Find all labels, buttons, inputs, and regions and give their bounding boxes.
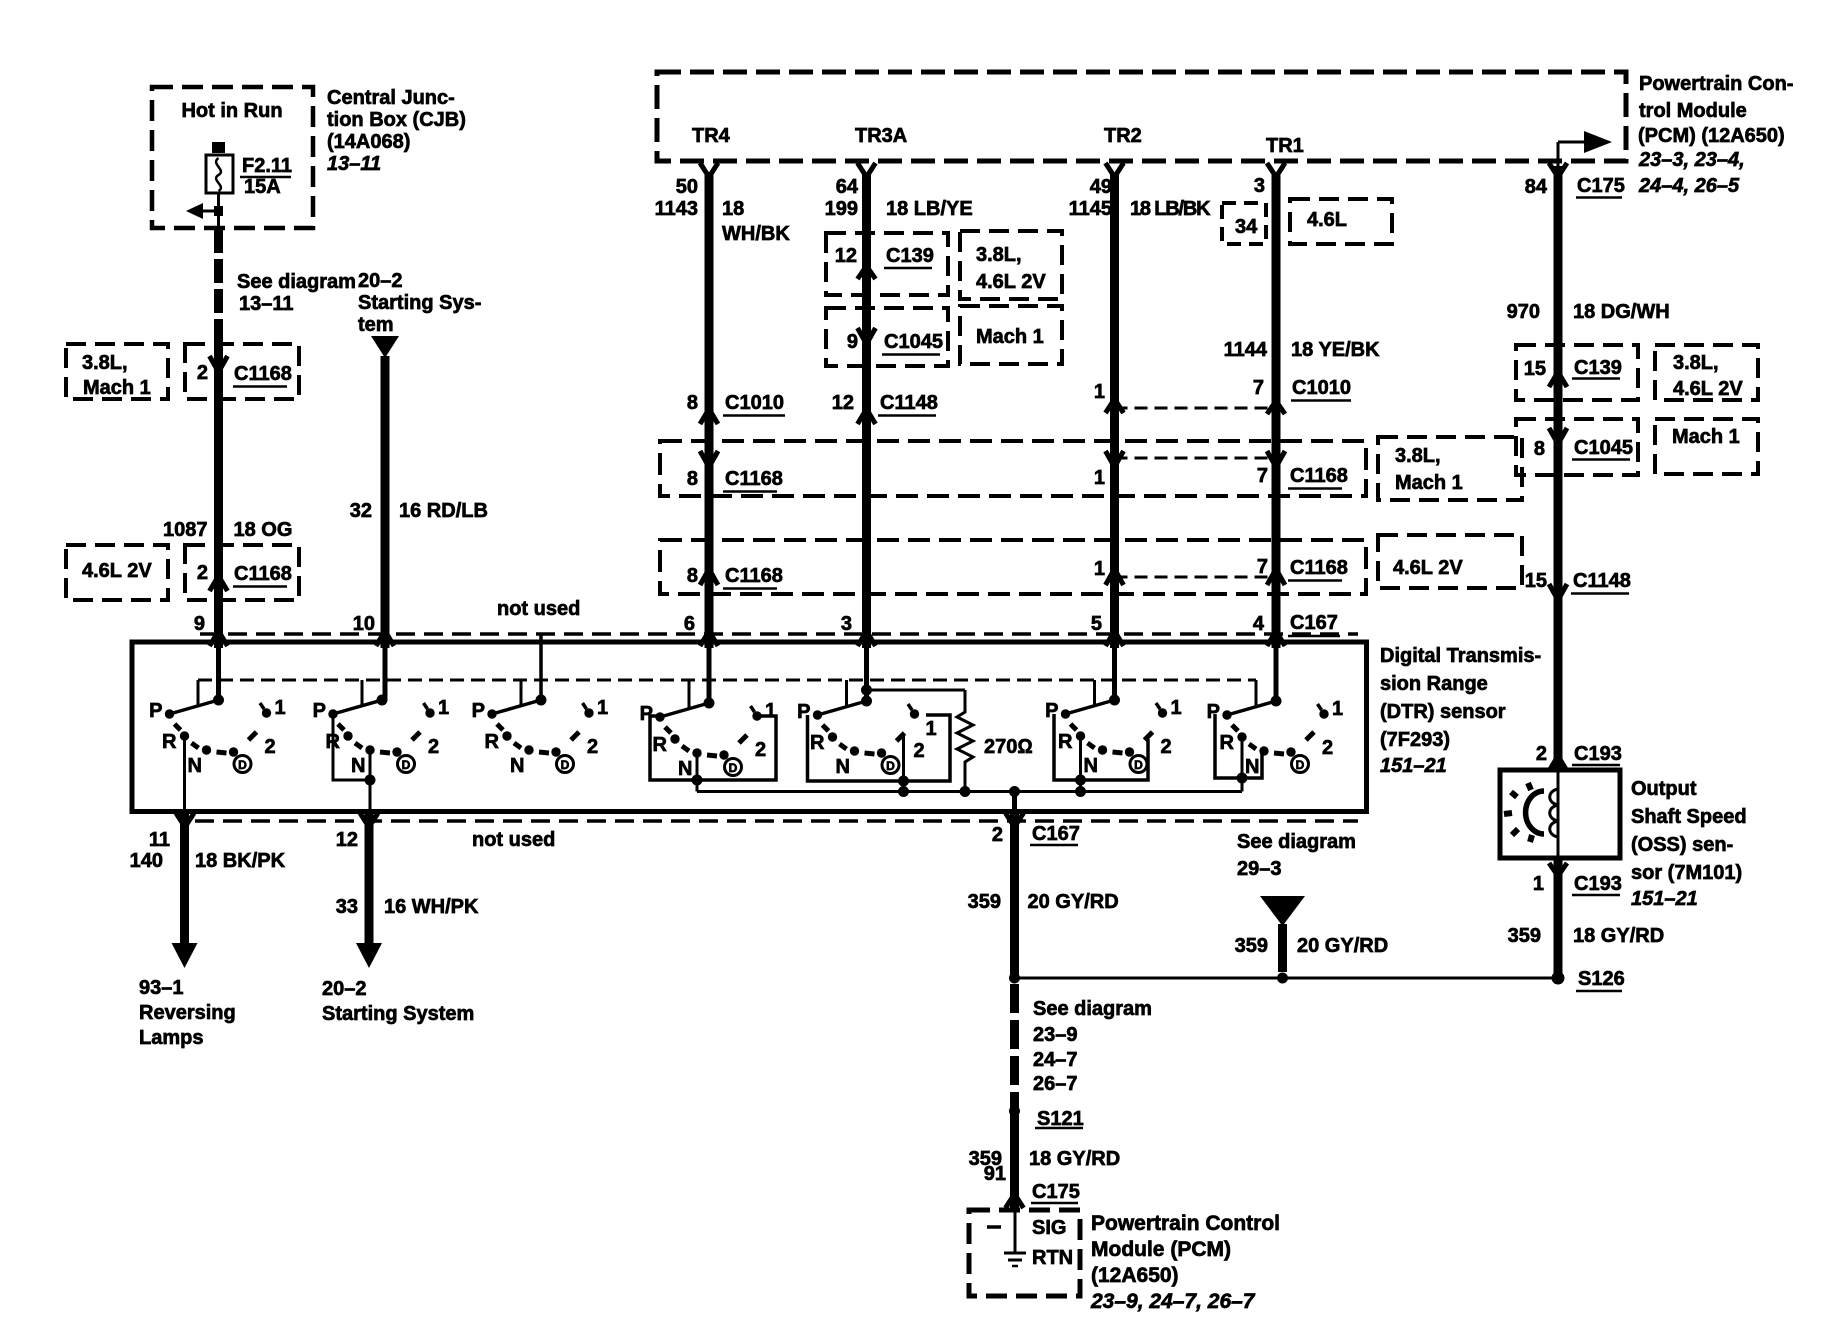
- wire: pin 12 to starting system: [356, 812, 382, 969]
- switch 3 (not used): [472, 680, 608, 777]
- svg-text:Mach 1: Mach 1: [1672, 426, 1740, 448]
- svg-text:(PCM) (12A650): (PCM) (12A650): [1638, 125, 1785, 147]
- wire label 33 16 WH/PK: [336, 896, 479, 918]
- connector C1168 pin 2 (upper): [185, 344, 299, 399]
- svg-text:D: D: [1277, 904, 1289, 921]
- wire labels TR2: [1069, 176, 1211, 220]
- not used (top): [497, 598, 580, 700]
- svg-text:C1010: C1010: [1292, 377, 1351, 399]
- variant tag 3.8L Mach 1 (row upper): [1378, 437, 1522, 500]
- svg-text:Powertrain Control: Powertrain Control: [1091, 1212, 1280, 1235]
- svg-text:2: 2: [197, 362, 208, 384]
- svg-text:D: D: [1134, 758, 1143, 772]
- svg-text:4: 4: [1253, 613, 1265, 635]
- svg-text:3: 3: [841, 613, 852, 635]
- svg-text:P: P: [149, 700, 162, 722]
- destination 20-2 Starting System: [322, 978, 474, 1025]
- starting system triangle input: [371, 336, 399, 358]
- svg-text:tion Box (CJB): tion Box (CJB): [327, 109, 466, 131]
- connector C175 pin 84: [1525, 175, 1625, 198]
- pin TR1: [1266, 135, 1304, 177]
- svg-text:N: N: [1245, 756, 1259, 778]
- svg-text:D: D: [402, 758, 411, 772]
- svg-text:18 YE/BK: 18 YE/BK: [1291, 339, 1380, 361]
- svg-text:N: N: [836, 756, 850, 778]
- svg-text:C193: C193: [1574, 743, 1622, 765]
- svg-text:1: 1: [1533, 873, 1544, 895]
- svg-text:See diagram: See diagram: [237, 271, 356, 293]
- DTR connector dashed line (bottom): [195, 819, 1358, 823]
- svg-text:1143: 1143: [655, 198, 698, 220]
- variant tag 4.6L 2V (row lower): [1378, 535, 1522, 588]
- svg-text:1: 1: [275, 697, 286, 719]
- svg-text:23–9, 24–7, 26–7: 23–9, 24–7, 26–7: [1090, 1290, 1256, 1313]
- svg-text:See diagram: See diagram: [1033, 998, 1152, 1020]
- svg-text:23–9: 23–9: [1033, 1024, 1078, 1046]
- DTR internal dashed bus: [198, 679, 1256, 682]
- variant tag 3.8L 4.6L 2V (TR3A): [960, 231, 1062, 299]
- svg-text:S121: S121: [1037, 1108, 1084, 1130]
- svg-text:7: 7: [1257, 465, 1268, 487]
- svg-text:D: D: [561, 758, 570, 772]
- svg-text:16 RD/LB: 16 RD/LB: [399, 500, 488, 522]
- svg-text:C193: C193: [1574, 873, 1622, 895]
- connector C1010 pin 1 (TR2): [1094, 381, 1124, 413]
- svg-text:C1168: C1168: [234, 363, 292, 385]
- svg-text:(14A068): (14A068): [327, 131, 410, 153]
- svg-text:1: 1: [1332, 698, 1343, 720]
- wire: S126 to S121 (dashed): [1010, 984, 1019, 1112]
- wire: TR2 to DTR pin 5: [1110, 175, 1119, 648]
- svg-text:F2.11: F2.11: [242, 155, 292, 177]
- svg-text:3: 3: [1254, 175, 1265, 197]
- svg-text:270Ω: 270Ω: [984, 736, 1033, 758]
- variant tag 4.6L 2V (left): [66, 545, 168, 600]
- connector C1010 pin 7 (TR1): [1253, 377, 1351, 414]
- connector C1168 pin 2 (lower): [185, 545, 299, 600]
- splice bus S126: [1009, 968, 1625, 991]
- svg-text:(12A650): (12A650): [1091, 1264, 1179, 1287]
- svg-text:1: 1: [1094, 558, 1105, 580]
- svg-text:8: 8: [687, 468, 698, 490]
- svg-text:20–2: 20–2: [322, 978, 367, 1000]
- svg-text:20–2: 20–2: [358, 270, 403, 292]
- wire: bus to DTR pin 2: [1012, 792, 1017, 812]
- svg-text:1: 1: [1171, 697, 1182, 719]
- svg-text:D: D: [729, 761, 738, 775]
- svg-text:SIG: SIG: [1032, 1217, 1066, 1239]
- svg-text:P: P: [1045, 700, 1058, 722]
- svg-text:C1010: C1010: [725, 392, 784, 414]
- svg-text:2: 2: [914, 740, 925, 762]
- svg-text:(7F293): (7F293): [1380, 729, 1450, 751]
- switch 2 (pin 10): [313, 648, 449, 812]
- switch 1 (pin 9): [149, 648, 285, 812]
- wire label 970 18 DG/WH: [1507, 301, 1670, 323]
- svg-text:2: 2: [1322, 737, 1333, 759]
- resistor 270 ohm: [867, 690, 1033, 792]
- svg-text:(OSS) sen-: (OSS) sen-: [1631, 834, 1733, 856]
- svg-text:1087: 1087: [163, 519, 208, 541]
- svg-text:359: 359: [1235, 935, 1268, 957]
- svg-text:20 GY/RD: 20 GY/RD: [1297, 935, 1388, 957]
- svg-text:2: 2: [428, 736, 439, 758]
- PCM SIG RTN pins: [987, 1210, 1073, 1269]
- svg-text:1: 1: [1094, 467, 1105, 489]
- svg-text:4.6L 2V: 4.6L 2V: [82, 560, 152, 582]
- svg-text:D: D: [238, 758, 247, 772]
- svg-text:24–7: 24–7: [1033, 1049, 1078, 1071]
- DTR pin 2 C167: [992, 813, 1080, 846]
- wire: CJB fuse to DTR pin 9: [214, 228, 223, 648]
- svg-text:Hot in Run: Hot in Run: [181, 100, 282, 122]
- svg-text:N: N: [188, 755, 202, 777]
- svg-text:5: 5: [1091, 613, 1102, 635]
- svg-text:64: 64: [836, 176, 859, 198]
- svg-text:1: 1: [926, 718, 937, 740]
- svg-text:C1168: C1168: [1290, 557, 1348, 579]
- PCM internal arrow: [1558, 131, 1612, 166]
- fuse F2.11 15A: [206, 142, 292, 228]
- svg-text:RTN: RTN: [1032, 1247, 1073, 1269]
- svg-text:Mach 1: Mach 1: [976, 326, 1044, 348]
- wire: TR3A to DTR pin 3: [862, 175, 871, 648]
- svg-text:4.6L 2V: 4.6L 2V: [1673, 378, 1743, 400]
- wire: TR1 to DTR pin 4: [1272, 175, 1281, 648]
- connector C139 pin 12 (TR3A): [826, 233, 948, 295]
- svg-text:2: 2: [197, 562, 208, 584]
- connector row C1168 (lower): [660, 540, 1366, 594]
- svg-text:TR1: TR1: [1266, 135, 1304, 157]
- wire: TR4 to DTR pin 6: [705, 175, 714, 648]
- svg-text:R: R: [162, 731, 177, 753]
- svg-text:26–7: 26–7: [1033, 1073, 1078, 1095]
- svg-text:Starting System: Starting System: [322, 1003, 474, 1025]
- svg-text:2: 2: [265, 736, 276, 758]
- connector C193 pin 2: [1536, 743, 1622, 771]
- svg-text:10: 10: [353, 613, 375, 635]
- svg-text:7: 7: [1253, 377, 1264, 399]
- svg-text:2: 2: [1536, 743, 1547, 765]
- svg-text:151–21: 151–21: [1380, 755, 1447, 777]
- connector C193 pin 1: [1533, 863, 1622, 895]
- svg-text:C175: C175: [1577, 175, 1625, 197]
- svg-text:C1168: C1168: [1290, 465, 1348, 487]
- svg-text:4.6L: 4.6L: [1307, 209, 1347, 231]
- DTR sensor box: [132, 642, 1367, 812]
- wire label 359 20 GY/RD: [968, 891, 1119, 913]
- svg-text:C1045: C1045: [884, 331, 943, 353]
- wire label 359 20 GY/RD (D branch): [1235, 935, 1389, 957]
- svg-text:C1168: C1168: [725, 565, 783, 587]
- svg-text:18: 18: [722, 198, 744, 220]
- svg-text:29–3: 29–3: [1237, 858, 1282, 880]
- svg-text:C175: C175: [1032, 1181, 1080, 1203]
- svg-text:91: 91: [984, 1163, 1006, 1185]
- DTR pin 9: [194, 613, 228, 646]
- variant tag 3.8L Mach 1 (left): [66, 344, 168, 399]
- switch 4 (pin 6): [640, 648, 776, 792]
- Output Shaft Speed sensor box: [1500, 770, 1620, 858]
- variant tag Mach 1 (right): [1655, 419, 1758, 474]
- OSS label text: [1631, 778, 1747, 910]
- svg-text:20 GY/RD: 20 GY/RD: [1028, 891, 1119, 913]
- svg-text:16 WH/PK: 16 WH/PK: [384, 896, 479, 918]
- svg-text:R: R: [653, 734, 668, 756]
- switch 6 (pin 5): [1045, 648, 1181, 792]
- not used (bottom): [472, 829, 555, 851]
- svg-text:Lamps: Lamps: [139, 1027, 203, 1049]
- svg-text:N: N: [510, 755, 524, 777]
- svg-text:TR2: TR2: [1104, 125, 1142, 147]
- svg-text:9: 9: [847, 331, 858, 353]
- svg-text:not used: not used: [497, 598, 580, 620]
- svg-text:1: 1: [1094, 381, 1105, 403]
- svg-text:151–21: 151–21: [1631, 888, 1698, 910]
- svg-text:15A: 15A: [244, 176, 281, 198]
- svg-text:Shaft Speed: Shaft Speed: [1631, 806, 1747, 828]
- DTR internal bottom bus wire: [697, 786, 1242, 797]
- svg-text:Starting Sys-: Starting Sys-: [358, 292, 481, 314]
- svg-text:C1045: C1045: [1574, 437, 1633, 459]
- pin 84 chevron: [1549, 163, 1567, 177]
- svg-text:34: 34: [1235, 216, 1258, 238]
- svg-text:Module (PCM): Module (PCM): [1091, 1238, 1231, 1261]
- svg-text:tem: tem: [358, 314, 394, 336]
- svg-text:33: 33: [336, 896, 358, 918]
- svg-text:12: 12: [835, 245, 857, 267]
- wire: OSS to S126: [1554, 858, 1563, 978]
- svg-text:359: 359: [968, 891, 1001, 913]
- svg-text:D: D: [886, 759, 895, 773]
- svg-text:4.6L 2V: 4.6L 2V: [1393, 557, 1463, 579]
- svg-text:140: 140: [130, 850, 163, 872]
- svg-text:2: 2: [992, 824, 1003, 846]
- CJB label text: [327, 87, 466, 175]
- switch 5 (pin 3): [797, 648, 950, 792]
- svg-text:7: 7: [1257, 556, 1268, 578]
- svg-text:18 GY/RD: 18 GY/RD: [1573, 925, 1664, 947]
- svg-text:15: 15: [1525, 570, 1547, 592]
- wire label 140 18 BK/PK: [130, 850, 286, 872]
- ground symbol: [1004, 1253, 1026, 1266]
- DTR pins 6 3 5 4 C167: [684, 612, 1338, 635]
- svg-text:C167: C167: [1032, 823, 1080, 845]
- svg-text:9: 9: [194, 613, 205, 635]
- connector C1148 pin 15 (right): [1525, 570, 1631, 600]
- svg-text:R: R: [1220, 732, 1235, 754]
- svg-text:49: 49: [1090, 176, 1112, 198]
- svg-text:C1168: C1168: [234, 563, 292, 585]
- DTR pin 12: [336, 813, 378, 851]
- svg-text:S126: S126: [1578, 968, 1625, 990]
- svg-text:C1148: C1148: [880, 392, 938, 414]
- triangle connector D: [1260, 896, 1305, 926]
- svg-text:C139: C139: [1574, 357, 1622, 379]
- svg-text:C1168: C1168: [725, 468, 783, 490]
- svg-text:3.8L,: 3.8L,: [1395, 445, 1441, 467]
- svg-text:12: 12: [832, 392, 854, 414]
- svg-text:6: 6: [684, 613, 695, 635]
- wire: pin 11 to reversing lamps: [172, 812, 198, 969]
- wire: D triangle to splice: [1278, 924, 1287, 972]
- pin TR4: [692, 125, 731, 177]
- svg-text:Central Junc-: Central Junc-: [327, 87, 455, 109]
- variant tag Mach 1 (TR3A): [960, 306, 1062, 364]
- wire label 1087 18 OG: [163, 519, 292, 541]
- svg-text:93–1: 93–1: [139, 977, 184, 999]
- pin TR3A: [855, 125, 907, 177]
- DTR pin 10: [353, 613, 394, 646]
- wire label 3 (TR1): [1254, 175, 1265, 197]
- svg-text:R: R: [485, 731, 500, 753]
- svg-text:1: 1: [597, 697, 608, 719]
- svg-text:24–4, 26–5: 24–4, 26–5: [1638, 175, 1740, 197]
- switch 7 (pin 4): [1207, 648, 1343, 792]
- svg-text:13–11: 13–11: [239, 293, 294, 315]
- connector tag 34 (TR1): [1222, 203, 1266, 244]
- svg-text:23–3, 23–4,: 23–3, 23–4,: [1638, 149, 1745, 171]
- svg-text:R: R: [1058, 731, 1073, 753]
- svg-text:WH/BK: WH/BK: [722, 223, 790, 245]
- see diagram note 13-11: [237, 271, 356, 315]
- svg-text:(DTR) sensor: (DTR) sensor: [1380, 701, 1506, 723]
- svg-text:8: 8: [1534, 438, 1545, 460]
- wire: S121 to PCM pin 91: [1010, 1111, 1019, 1210]
- wire label 32 16 RD/LB: [350, 500, 488, 522]
- connector C1010 pin 8 (TR4): [687, 392, 785, 424]
- svg-text:18 OG: 18 OG: [234, 519, 293, 541]
- wire: pin 2 to splice S126: [1010, 812, 1019, 979]
- wire: starting system to DTR pin 10: [381, 356, 390, 648]
- see diagram note 23-9 24-7 26-7: [1033, 998, 1152, 1095]
- Powertrain Control Module box (top): [657, 72, 1626, 161]
- wire label 359 18 GY/RD (OSS): [1508, 925, 1665, 947]
- wire label 359 18 GY/RD: [969, 1148, 1121, 1170]
- svg-text:970: 970: [1507, 301, 1540, 323]
- svg-text:3.8L,: 3.8L,: [976, 244, 1022, 266]
- Central Junction Box (CJB): [152, 87, 313, 228]
- svg-text:18 GY/RD: 18 GY/RD: [1029, 1148, 1120, 1170]
- PCM label text (top right): [1638, 73, 1793, 197]
- svg-text:Digital Transmis-: Digital Transmis-: [1380, 645, 1541, 667]
- DTR pin 11: [149, 813, 194, 851]
- svg-text:C167: C167: [1290, 612, 1338, 634]
- connector C1045 pin 8 (right): [1516, 419, 1638, 475]
- PCM pin 91 C175: [984, 1163, 1080, 1208]
- destination 93-1 Reversing Lamps: [139, 977, 236, 1049]
- svg-text:8: 8: [687, 392, 698, 414]
- see diagram note 29-3: [1237, 831, 1356, 880]
- DTR connector dashed line (top): [200, 632, 1358, 636]
- wire: PCM pin 84 C175 down right side: [1554, 166, 1563, 770]
- svg-text:Powertrain Con-: Powertrain Con-: [1639, 73, 1793, 95]
- OSS gear icon: [1504, 783, 1544, 842]
- connector C1045 pin 9 (TR3A): [826, 308, 948, 366]
- svg-text:Mach 1: Mach 1: [83, 377, 151, 399]
- svg-text:sor (7M101): sor (7M101): [1631, 862, 1742, 884]
- note 20-2 Starting System: [358, 270, 481, 336]
- svg-text:Reversing: Reversing: [139, 1002, 236, 1024]
- svg-text:18 BK/PK: 18 BK/PK: [195, 850, 286, 872]
- svg-text:50: 50: [676, 176, 698, 198]
- svg-text:2: 2: [755, 739, 766, 761]
- svg-text:Mach 1: Mach 1: [1395, 472, 1463, 494]
- svg-text:32: 32: [350, 500, 372, 522]
- svg-text:12: 12: [336, 829, 358, 851]
- svg-text:1145: 1145: [1069, 198, 1112, 220]
- Powertrain Control Module box (bottom): [969, 1210, 1080, 1296]
- svg-text:15: 15: [1524, 358, 1546, 380]
- svg-text:P: P: [313, 700, 326, 722]
- svg-text:N: N: [351, 755, 365, 777]
- svg-text:2: 2: [1161, 736, 1172, 758]
- svg-text:3.8L,: 3.8L,: [82, 352, 128, 374]
- svg-text:not used: not used: [472, 829, 555, 851]
- svg-text:3.8L,: 3.8L,: [1673, 352, 1719, 374]
- wire labels TR3A: [825, 176, 973, 220]
- arrow to other CJB circuits: [186, 203, 223, 219]
- svg-text:2: 2: [587, 736, 598, 758]
- svg-text:18 DG/WH: 18 DG/WH: [1573, 301, 1670, 323]
- svg-text:18 LB/BK: 18 LB/BK: [1130, 198, 1211, 220]
- connector row C1168 (upper): [660, 441, 1366, 496]
- splice S121: [1009, 1106, 1084, 1131]
- svg-text:1144: 1144: [1224, 339, 1268, 361]
- svg-text:trol Module: trol Module: [1639, 100, 1747, 122]
- svg-text:13–11: 13–11: [327, 153, 381, 175]
- svg-text:8: 8: [687, 565, 698, 587]
- svg-text:4.6L 2V: 4.6L 2V: [976, 271, 1046, 293]
- DTR sensor label text: [1380, 645, 1541, 777]
- svg-text:359: 359: [1508, 925, 1541, 947]
- variant tag 4.6L (TR1): [1290, 199, 1392, 244]
- svg-text:sion Range: sion Range: [1380, 673, 1488, 695]
- svg-text:TR4: TR4: [692, 125, 731, 147]
- variant tag 3.8L 4.6L 2V (right): [1655, 345, 1758, 400]
- pin TR2: [1104, 125, 1142, 177]
- wire labels TR4: [655, 176, 791, 245]
- svg-text:18 LB/YE: 18 LB/YE: [886, 198, 973, 220]
- svg-text:TR3A: TR3A: [855, 125, 907, 147]
- svg-text:C1148: C1148: [1573, 570, 1631, 592]
- svg-text:Output: Output: [1631, 778, 1697, 800]
- wire label 1144 18 YE/BK: [1224, 339, 1381, 361]
- svg-text:1: 1: [438, 697, 449, 719]
- svg-text:84: 84: [1525, 176, 1548, 198]
- svg-text:N: N: [678, 758, 692, 780]
- dashed link pins 1-7 C1010: [1115, 407, 1277, 410]
- svg-text:D: D: [1296, 758, 1305, 772]
- connector C1148 pin 12 (TR3A): [832, 392, 938, 424]
- connector C139 pin 15 (right): [1516, 345, 1638, 400]
- svg-text:199: 199: [825, 198, 858, 220]
- svg-text:11: 11: [149, 829, 170, 851]
- svg-text:See diagram: See diagram: [1237, 831, 1356, 853]
- svg-text:R: R: [810, 732, 825, 754]
- svg-text:P: P: [472, 700, 485, 722]
- svg-text:N: N: [1084, 755, 1098, 777]
- svg-text:C139: C139: [886, 245, 934, 267]
- PCM label text (bottom): [1090, 1212, 1280, 1313]
